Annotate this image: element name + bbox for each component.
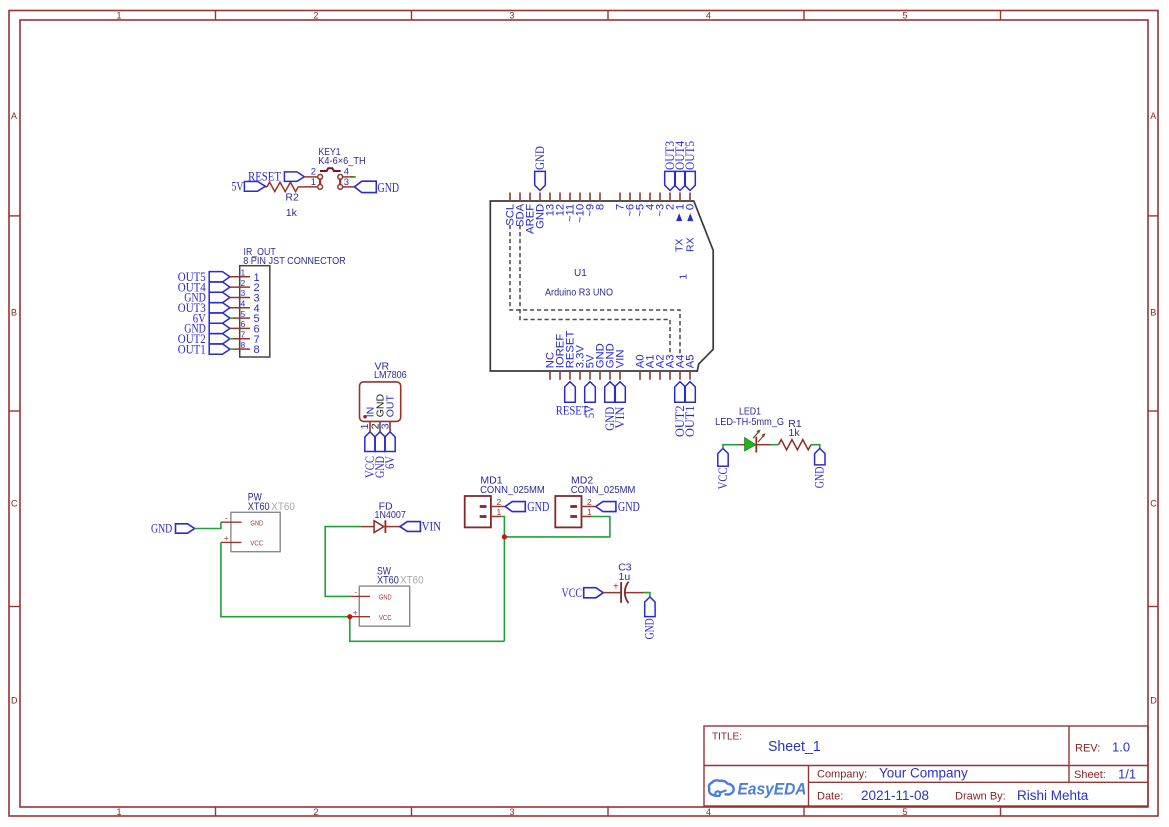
- KEY1 left contact link bar: [319, 179, 321, 184]
- svg-text:RESET: RESET: [248, 170, 281, 184]
- connector SW body box: [359, 586, 409, 626]
- KEY1 pin 4 stub wire: [343, 176, 350, 178]
- svg-text:GND: GND: [533, 146, 547, 170]
- svg-text:5: 5: [902, 807, 907, 817]
- KEY1 actuator bar: [320, 168, 341, 171]
- U1 top pin GND stub: [539, 193, 541, 202]
- wire MD1 pin1 down to junction: [501, 517, 504, 642]
- U1 top pin 13 stub: [549, 193, 551, 202]
- net flag OUT4 above U1: [675, 171, 686, 190]
- svg-text:GND: GND: [643, 618, 657, 639]
- pin 6 wire IR_OUT: [230, 327, 250, 329]
- U1 bottom pin A2 stub: [659, 371, 661, 380]
- U1 top pin ~11 stub: [569, 193, 571, 202]
- svg-text:VCC: VCC: [716, 467, 730, 489]
- net flag OUT3 above U1: [665, 171, 676, 190]
- svg-text:3: 3: [379, 423, 391, 429]
- wire green corner to GND flag (C3): [644, 593, 650, 597]
- net flag GND pentagon (MD2): [596, 502, 616, 512]
- svg-text:4: 4: [241, 299, 246, 309]
- pin 3 wire IR_OUT: [230, 297, 250, 299]
- KEY1 contact circle pin 2: [318, 175, 323, 180]
- svg-text:0: 0: [685, 204, 697, 210]
- junction dot at MD net: [502, 534, 507, 539]
- svg-text:GND: GND: [813, 467, 827, 489]
- svg-text:B: B: [1150, 308, 1156, 318]
- svg-text:R2: R2: [285, 192, 299, 204]
- frame column ticks bottom: [216, 807, 1001, 816]
- diode FD cathode bar: [384, 520, 386, 533]
- U1 top pin AREF stub: [529, 193, 531, 202]
- pin 5 wire IR_OUT: [233, 317, 250, 319]
- MD1 pin 1 pad: [480, 515, 487, 518]
- LED1 emission arrow 1 shaft: [753, 432, 759, 439]
- MD1 pin 2 pad: [480, 505, 487, 508]
- wire OUT1 stub green (IR_OUT pin 8): [230, 348, 233, 350]
- VR pin 1 stub: [369, 421, 371, 431]
- net flag GND pentagon (KEY1): [355, 181, 377, 192]
- svg-text:1: 1: [587, 507, 592, 517]
- svg-text:LED-TH-5mm_G: LED-TH-5mm_G: [715, 416, 784, 428]
- U1 top pin 2 stub: [669, 193, 671, 202]
- net flag RESET below U1: [565, 382, 576, 403]
- wire diode anode back to SW GND pin: [325, 527, 361, 597]
- connector MD2 body box: [555, 496, 581, 527]
- svg-text:LM7806: LM7806: [374, 369, 407, 381]
- svg-text:8: 8: [595, 204, 607, 210]
- svg-text:1.0: 1.0: [1112, 740, 1130, 755]
- svg-text:CONN_025MM: CONN_025MM: [571, 484, 636, 496]
- svg-text:Rishi Mehta: Rishi Mehta: [1017, 788, 1089, 803]
- net flag OUT5 pentagon (IR_OUT pin 1): [209, 272, 230, 282]
- wire PW VCC down and right to SW VCC junction: [221, 542, 350, 616]
- svg-text:Sheet:: Sheet:: [1074, 769, 1106, 781]
- svg-text:8: 8: [241, 340, 246, 350]
- U1 bottom pin IOREF stub: [559, 371, 561, 380]
- MD2 pin 2 stub: [582, 506, 596, 508]
- KEY1 contact circle pin 1: [318, 185, 323, 190]
- net flag OUT1 pentagon (IR_OUT pin 8): [209, 344, 230, 354]
- U1 RX marker triangle: [687, 213, 693, 221]
- svg-text:1/1: 1/1: [1118, 767, 1136, 782]
- regulator VR pin1 dot: [363, 415, 366, 418]
- frame row letters right: [1150, 111, 1157, 706]
- net flag 6V pentagon (IR_OUT pin 5): [209, 313, 230, 323]
- U1 top pin ~5 stub: [639, 193, 641, 202]
- SW VCC pin line: [350, 616, 370, 618]
- LED1 anode stub: [740, 444, 745, 446]
- U1 bottom pin A4 stub: [679, 371, 681, 380]
- svg-text:VCC: VCC: [379, 613, 392, 622]
- wire RESET to KEY1 pin 2: [304, 176, 317, 178]
- svg-text:2: 2: [313, 807, 318, 817]
- svg-text:XT60: XT60: [248, 501, 270, 513]
- svg-text:OUT1: OUT1: [683, 406, 697, 438]
- wire LED1 cathode to R1: [756, 444, 770, 446]
- svg-text:TITLE:: TITLE:: [712, 732, 742, 743]
- svg-text:1: 1: [311, 177, 316, 188]
- svg-text:2: 2: [497, 497, 502, 507]
- VR pin 3 stub: [389, 421, 391, 431]
- svg-text:1k: 1k: [286, 207, 298, 219]
- MD1 pin 1 stub: [491, 516, 501, 518]
- svg-text:2: 2: [587, 497, 592, 507]
- svg-text:+: +: [613, 582, 619, 593]
- U1 top pin SCL stub: [509, 193, 511, 202]
- KEY1 right contact link bar: [339, 179, 341, 184]
- LED1 triangle: [745, 437, 756, 451]
- svg-text:A5: A5: [685, 354, 697, 368]
- wire VCC flag to LED1 anode: [723, 445, 740, 449]
- svg-text:2021-11-08: 2021-11-08: [861, 788, 929, 803]
- U1 bottom pin NC stub: [549, 371, 551, 380]
- svg-text:8: 8: [254, 344, 260, 356]
- KEY1 pin 4 stub green tip: [354, 176, 356, 178]
- U1 top pin SDA stub: [519, 193, 521, 202]
- U1 TX marker triangle: [676, 213, 682, 221]
- power flag GND below VR: [375, 432, 385, 452]
- svg-text:1k: 1k: [789, 427, 801, 439]
- MD2 pin 1 stub: [582, 516, 592, 518]
- SW GND pin line: [350, 595, 370, 597]
- MD2 pin 2 pad: [570, 505, 577, 508]
- wire 5V to R2: [266, 186, 268, 188]
- power flag GND above U1: [535, 171, 546, 190]
- junction dot at SW VCC: [347, 614, 352, 619]
- KEY1 contact circle pin 4: [338, 175, 343, 180]
- svg-text:VCC: VCC: [562, 585, 583, 600]
- svg-text:VIN: VIN: [422, 519, 442, 534]
- svg-text:5V: 5V: [583, 406, 597, 418]
- pin 4 wire IR_OUT: [230, 307, 250, 309]
- C3 straight plate: [620, 582, 622, 603]
- svg-text:XT60: XT60: [400, 575, 424, 587]
- KEY1 contact circle pin 3: [338, 185, 343, 190]
- svg-text:1: 1: [241, 268, 246, 278]
- svg-text:Date:: Date:: [817, 791, 843, 803]
- svg-text:K4-6×6_TH: K4-6×6_TH: [318, 155, 365, 167]
- svg-text:1: 1: [116, 11, 121, 21]
- U1 internal dashed net SCL routing: [510, 225, 680, 355]
- op-amp substitute: MCU module U1 body outline: [490, 201, 713, 371]
- net flag VIN below U1: [615, 382, 626, 403]
- wire green segment before R1: [771, 444, 779, 446]
- svg-text:1N4007: 1N4007: [375, 509, 406, 521]
- svg-text:GND: GND: [250, 518, 263, 527]
- wire KEY1 pin 3 to GND: [343, 186, 355, 188]
- U1 bottom pin RESET stub: [569, 371, 571, 380]
- net flag OUT4 pentagon (IR_OUT pin 2): [209, 282, 230, 292]
- regulator VR body: [360, 382, 401, 422]
- power flag 6V below VR: [385, 432, 395, 452]
- svg-text:EasyEDA: EasyEDA: [738, 781, 807, 799]
- svg-text:C: C: [1150, 499, 1157, 509]
- net flag GND pentagon (PW): [176, 524, 195, 533]
- wire C3 to GND corner: [625, 592, 643, 594]
- svg-text:GND: GND: [379, 593, 392, 602]
- svg-text:Arduino R3 UNO: Arduino R3 UNO: [545, 288, 613, 299]
- U1 bottom pin GND stub: [609, 371, 611, 380]
- connector MD1 body box: [465, 496, 491, 527]
- PW VCC pin line: [221, 541, 242, 543]
- svg-text:A: A: [1150, 111, 1156, 121]
- svg-text:5V: 5V: [232, 180, 244, 194]
- net flag GND pentagon (MD1): [505, 502, 525, 512]
- frame column numbers top: [116, 11, 907, 21]
- U1 top pin 7 stub: [619, 193, 621, 202]
- diode FD anode wire: [361, 526, 374, 528]
- svg-text:VIN: VIN: [615, 349, 627, 368]
- pin 8 wire IR_OUT: [233, 348, 250, 350]
- svg-text:4: 4: [706, 807, 711, 817]
- svg-text:OUT: OUT: [385, 395, 397, 418]
- svg-text:GND: GND: [527, 499, 549, 514]
- wire GND flag to PW GND pin: [195, 522, 221, 528]
- U1 bottom pin GND stub: [599, 371, 601, 380]
- svg-text:2: 2: [241, 278, 246, 288]
- svg-text:VIN: VIN: [613, 407, 627, 429]
- net flag VIN pentagon: [400, 522, 421, 532]
- U1 bottom pin VIN stub: [619, 371, 621, 380]
- diode FD triangle: [374, 521, 384, 533]
- MD1 pin 2 stub: [491, 506, 505, 508]
- svg-text:GND: GND: [378, 180, 400, 195]
- svg-text:-: -: [225, 514, 228, 523]
- power flag 5V below U1: [585, 382, 596, 403]
- wire MD2 pin1 to junction: [504, 517, 610, 537]
- net flag GND pentagon (IR_OUT pin 6): [209, 323, 230, 333]
- LED1 emission arrow 1 head: [757, 430, 761, 433]
- U1 bottom pin A1 stub: [649, 371, 651, 380]
- svg-text:VCC: VCC: [250, 539, 263, 548]
- MD2 pin 1 pad: [570, 515, 577, 518]
- svg-text:7: 7: [241, 330, 246, 340]
- svg-text:GND: GND: [618, 499, 640, 514]
- net flag GND pentagon (IR_OUT pin 3): [209, 292, 230, 302]
- net flag RESET pentagon: [284, 172, 304, 182]
- svg-text:3: 3: [241, 288, 246, 298]
- resistor R2 zigzag: [267, 182, 298, 191]
- svg-text:XT60: XT60: [377, 575, 399, 587]
- svg-text:1: 1: [678, 274, 689, 280]
- frame row ticks left: [9, 216, 20, 607]
- svg-text:5: 5: [902, 11, 907, 21]
- power flag VCC pentagon (LED1): [718, 448, 728, 466]
- U1 top pin ~3 stub: [659, 193, 661, 202]
- net flag VCC pentagon (C3): [584, 588, 604, 598]
- VR pin 2 stub: [379, 421, 381, 431]
- svg-text:Sheet_1: Sheet_1: [768, 739, 821, 755]
- U1 internal dashed net SDA routing: [520, 225, 670, 355]
- svg-text:1: 1: [116, 807, 121, 817]
- svg-text:C: C: [11, 499, 18, 509]
- U1 top pin 8 stub: [599, 193, 601, 202]
- pin 7 wire IR_OUT: [233, 338, 250, 340]
- svg-text:GND: GND: [151, 521, 172, 536]
- connector IR_OUT body box: [240, 266, 270, 357]
- U1 bottom pin 3.3V stub: [579, 371, 581, 380]
- svg-text:5: 5: [241, 309, 246, 319]
- svg-text:-: -: [355, 588, 358, 597]
- diode FD cathode wire: [385, 526, 400, 528]
- svg-text:4: 4: [706, 11, 711, 21]
- U1 top pin ~10 stub: [579, 193, 581, 202]
- wire VCC flag to C3 plus plate: [603, 592, 621, 594]
- svg-text:3: 3: [509, 11, 514, 21]
- wire 6V stub green (IR_OUT pin 5): [230, 317, 233, 319]
- net flag 5V pentagon: [244, 182, 265, 192]
- svg-text:OUT1: OUT1: [178, 342, 206, 356]
- pin 2 wire IR_OUT: [230, 286, 250, 288]
- svg-text:6: 6: [241, 319, 246, 329]
- LED1 cathode bar: [755, 437, 757, 453]
- wire R1 to GND flag: [811, 445, 820, 449]
- U1 bottom pin A0 stub: [639, 371, 641, 380]
- pin 1 wire IR_OUT: [230, 276, 250, 278]
- svg-text:B: B: [11, 308, 17, 318]
- power flag GND pentagon (LED1): [815, 448, 825, 465]
- net flag OUT5 above U1: [685, 171, 696, 190]
- net flag OUT3 pentagon (IR_OUT pin 4): [209, 303, 230, 313]
- U1 top pin 1 stub: [679, 193, 681, 202]
- U1 top pin 12 stub: [559, 193, 561, 202]
- power flag GND pentagon (C3): [645, 597, 655, 617]
- svg-text:6V: 6V: [383, 456, 397, 469]
- svg-text:1u: 1u: [619, 571, 631, 583]
- power flag VCC below VR: [365, 432, 375, 452]
- PW GND pin line: [221, 521, 242, 523]
- C3 curved plate: [625, 582, 629, 603]
- net flag OUT2 pentagon (IR_OUT pin 7): [209, 334, 230, 344]
- KEY1 pin 4 no-connect stub: [350, 176, 354, 178]
- net flag OUT2 below U1: [675, 382, 686, 403]
- svg-text:Drawn By:: Drawn By:: [955, 791, 1006, 803]
- connector PW body box: [231, 512, 280, 551]
- LED1 emission arrow 2 shaft: [758, 436, 764, 443]
- U1 bottom pin 5V stub: [589, 371, 591, 380]
- U1 top pin 0 stub: [689, 193, 691, 202]
- svg-text:Company:: Company:: [817, 769, 867, 781]
- U1 bottom pin A5 stub: [689, 371, 691, 380]
- resistor R1 zigzag: [779, 440, 811, 450]
- svg-text:OUT5: OUT5: [683, 141, 697, 170]
- svg-text:XT60: XT60: [271, 501, 295, 513]
- frame row letters left: [11, 111, 18, 706]
- title block outline: [704, 726, 1148, 806]
- svg-text:2: 2: [313, 11, 318, 21]
- svg-text:REV:: REV:: [1075, 743, 1100, 755]
- svg-text:RX: RX: [685, 237, 697, 252]
- power flag GND below U1: [605, 382, 616, 403]
- svg-text:CONN_025MM: CONN_025MM: [480, 484, 545, 496]
- svg-text:3: 3: [509, 807, 514, 817]
- U1 top pin ~6 stub: [629, 193, 631, 202]
- svg-text:1: 1: [497, 507, 502, 517]
- frame column numbers bottom: [116, 807, 907, 817]
- EasyEDA logo cloud: [709, 780, 734, 796]
- frame column ticks top: [216, 11, 1001, 21]
- wire R2 to KEY1 pin 1: [298, 186, 317, 188]
- wire SW VCC junction down and right to MD net: [350, 617, 505, 642]
- svg-text:Your Company: Your Company: [879, 766, 968, 781]
- svg-text:D: D: [1150, 696, 1157, 706]
- svg-text:U1: U1: [574, 268, 587, 279]
- LED1 emission arrow 2 head: [762, 434, 766, 437]
- U1 bottom pin A3 stub: [669, 371, 671, 380]
- U1 top pin 4 stub: [649, 193, 651, 202]
- frame row ticks right: [1148, 216, 1158, 607]
- svg-text:A: A: [11, 111, 17, 121]
- U1 top pin ~9 stub: [589, 193, 591, 202]
- wire OUT2 stub green (IR_OUT pin 7): [230, 338, 233, 340]
- net flag OUT1 below U1: [685, 382, 696, 403]
- svg-text:D: D: [11, 696, 18, 706]
